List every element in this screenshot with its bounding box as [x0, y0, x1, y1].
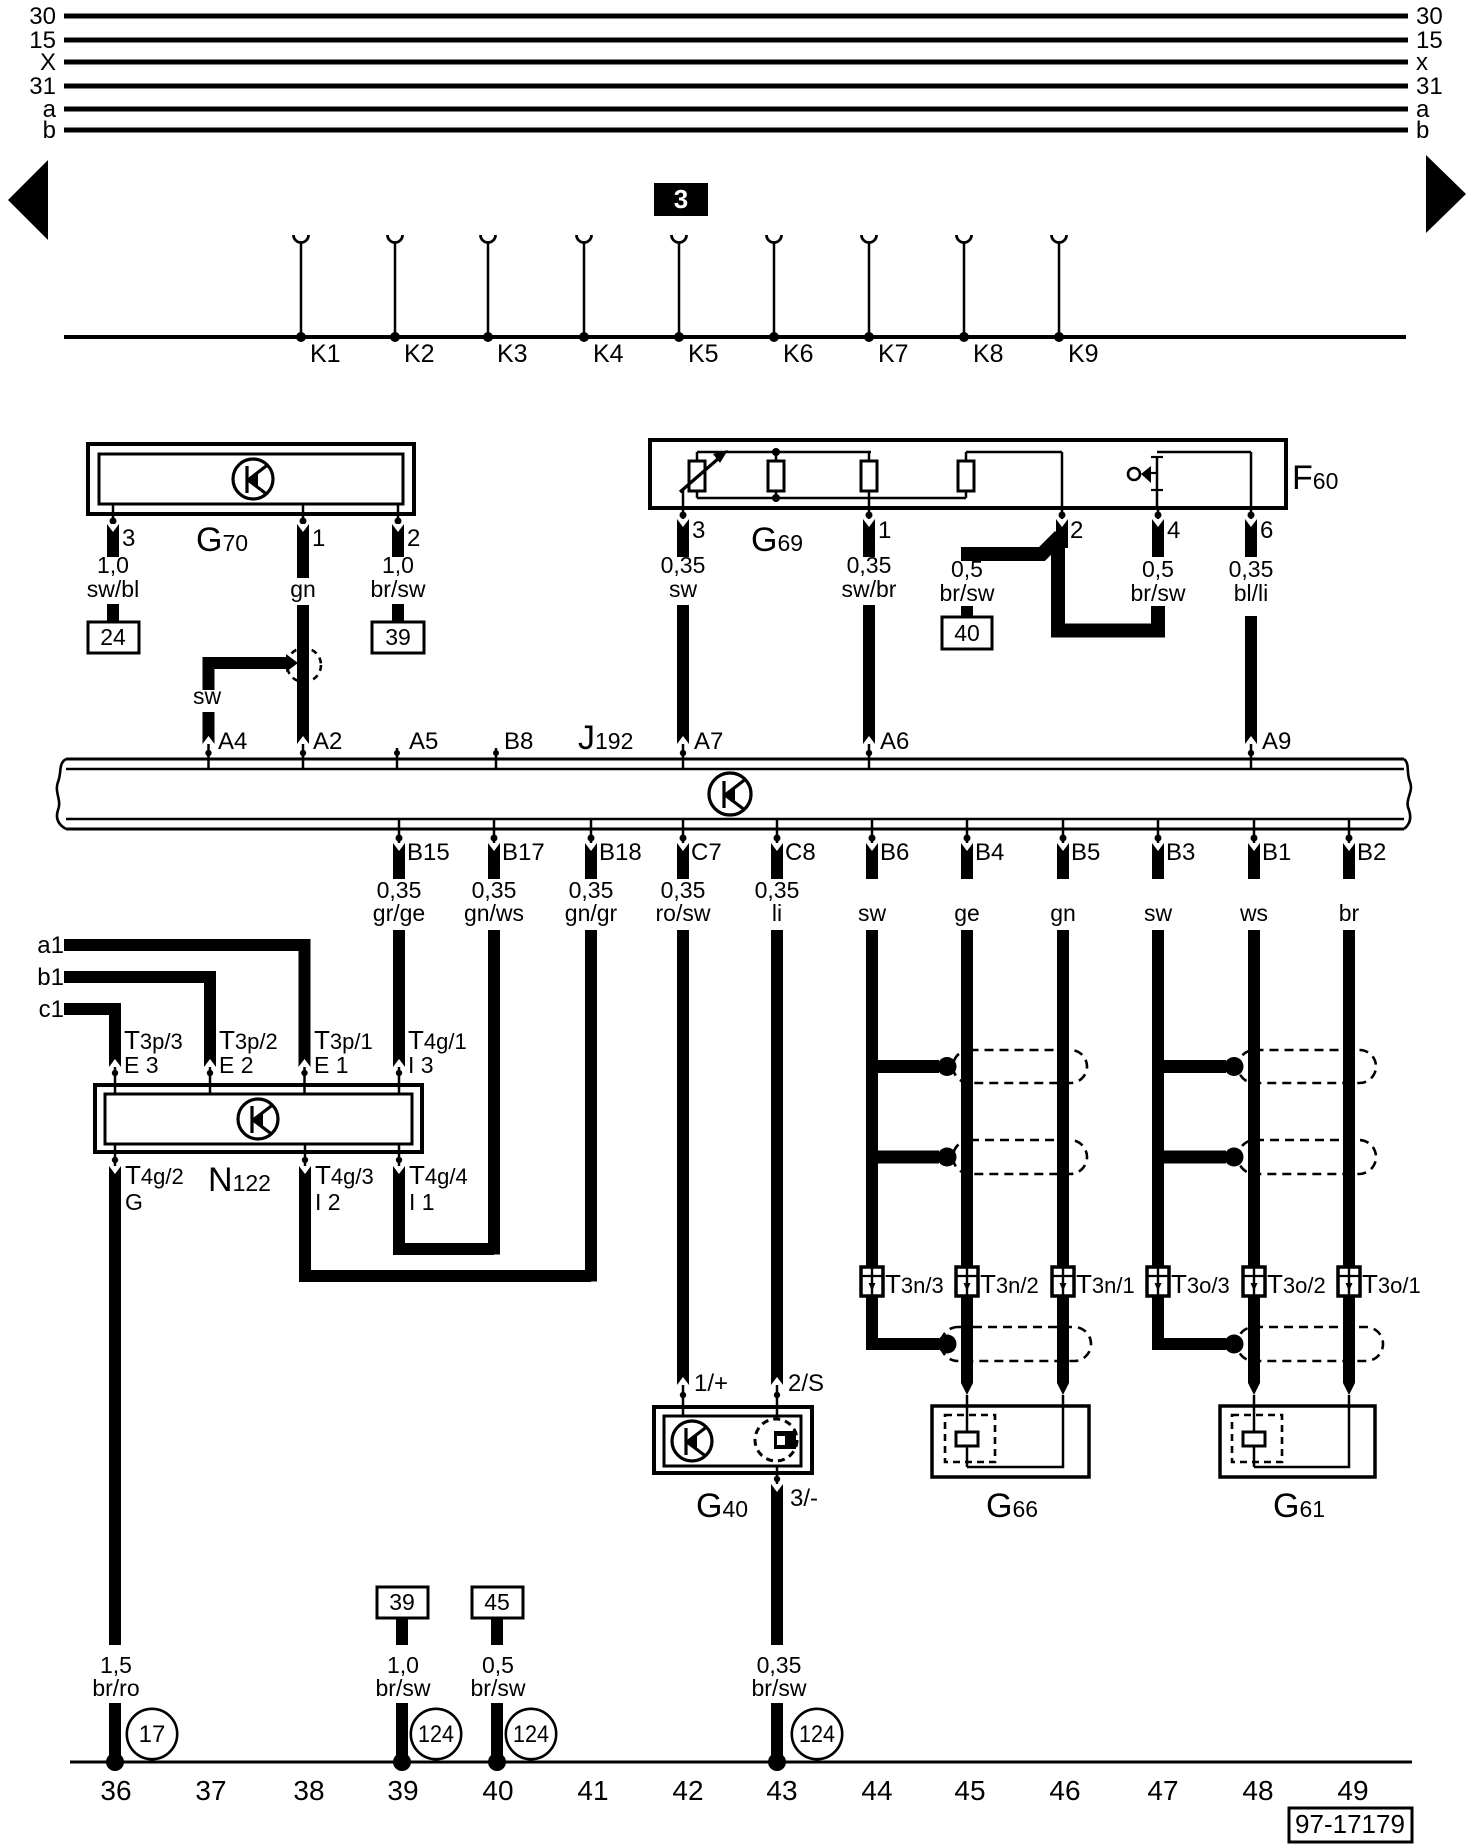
node K4 — [577, 235, 624, 368]
svg-text:24: 24 — [100, 624, 126, 650]
ground symbol 124 at 40 — [506, 1709, 556, 1759]
svg-text:B18: B18 — [599, 839, 642, 866]
svg-text:T3n/3: T3n/3 — [885, 1269, 944, 1299]
wire B4 stub — [961, 843, 973, 879]
wire a1 to N122-E1 — [64, 945, 311, 1067]
svg-text:1,0: 1,0 — [382, 552, 414, 578]
svg-text:T3n/2: T3n/2 — [980, 1269, 1039, 1299]
wire colour 0,35 ro/sw (C7) — [656, 877, 711, 926]
F60 pin 6 — [1248, 508, 1274, 544]
wire c1 to N122-E3 — [64, 1009, 121, 1067]
svg-text:1: 1 — [878, 517, 891, 544]
wire size 1,5 br/ro — [92, 1652, 139, 1701]
F60 pin 4 — [1155, 508, 1181, 544]
wire li C8 to G40-2 — [771, 930, 783, 1385]
bus line a — [43, 96, 1430, 123]
svg-text:sw: sw — [669, 576, 698, 602]
svg-text:K4: K4 — [593, 340, 624, 368]
J192 pin B5 — [1060, 819, 1101, 866]
bus line 30 — [29, 3, 1442, 30]
track number 39 — [387, 1775, 418, 1806]
J192 pin A9 — [1248, 728, 1292, 769]
svg-text:1,0: 1,0 — [97, 552, 129, 578]
control unit J192 bar — [57, 759, 1411, 829]
wire B3 lower to shield — [1158, 1296, 1244, 1354]
svg-text:br/sw: br/sw — [940, 580, 995, 606]
svg-text:3/-: 3/- — [790, 1485, 818, 1512]
svg-text:B1: B1 — [1262, 839, 1291, 866]
J192 pin A7 — [680, 728, 724, 769]
J192 pin B2 — [1346, 819, 1387, 866]
shield pill mid left — [953, 1140, 1087, 1174]
label G61 — [1273, 1487, 1325, 1525]
shield pill mid right — [1238, 1140, 1376, 1174]
svg-text:124: 124 — [799, 1721, 835, 1748]
track number 37 — [195, 1775, 226, 1806]
svg-text:T3n/1: T3n/1 — [1076, 1269, 1135, 1299]
svg-text:6: 6 — [1260, 517, 1273, 544]
wire size 0,35 sw/br — [842, 552, 897, 602]
svg-text:gn: gn — [1050, 900, 1076, 926]
svg-text:ws: ws — [1239, 900, 1268, 926]
svg-text:sw: sw — [1144, 900, 1173, 926]
svg-text:T4g/4: T4g/4 — [409, 1160, 468, 1190]
wire size 0,5 br/sw lower — [471, 1652, 526, 1701]
svg-text:br/sw: br/sw — [1131, 580, 1186, 606]
wire F60-1 stub — [863, 519, 875, 557]
svg-text:38: 38 — [293, 1775, 324, 1806]
svg-text:39: 39 — [385, 624, 411, 650]
label N122 — [208, 1161, 271, 1199]
svg-text:br/sw: br/sw — [371, 576, 426, 602]
svg-text:0,35: 0,35 — [1229, 556, 1274, 582]
wire F60-6 stub — [1245, 519, 1257, 557]
svg-text:I 1: I 1 — [409, 1189, 435, 1215]
svg-text:c1: c1 — [39, 996, 64, 1023]
G70 pin 3 — [110, 505, 136, 552]
node c1 — [39, 996, 64, 1023]
svg-text:B5: B5 — [1071, 839, 1100, 866]
svg-text:2/S: 2/S — [788, 1370, 824, 1397]
svg-text:1/+: 1/+ — [694, 1370, 728, 1397]
G61 sensor element — [1232, 1415, 1282, 1462]
svg-text:sw: sw — [858, 900, 887, 926]
svg-text:a1: a1 — [37, 932, 64, 959]
label G66 — [986, 1487, 1038, 1525]
G40 pin 2/S — [774, 1370, 824, 1416]
svg-text:K8: K8 — [973, 340, 1004, 368]
svg-text:17: 17 — [139, 1721, 166, 1748]
wire gr/ge B15 to N122-I3 — [393, 930, 405, 1067]
G69 internal top rail — [697, 451, 871, 454]
wire colour gn (B5) — [1050, 900, 1076, 926]
connector T3n/1 — [1052, 1267, 1135, 1299]
svg-text:gn: gn — [290, 576, 316, 602]
F60 internal rail to pin6 — [1157, 452, 1251, 508]
N122 pin T3p/3 E3 — [112, 1025, 183, 1093]
bus line X — [40, 49, 1428, 76]
wire colour br (B2) — [1339, 900, 1360, 926]
svg-text:A7: A7 — [694, 728, 723, 755]
svg-text:49: 49 — [1337, 1775, 1368, 1806]
wire B3 stub — [1152, 843, 1164, 879]
N122 pin T4g/1 I3 — [396, 1025, 467, 1093]
svg-text:46: 46 — [1049, 1775, 1080, 1806]
track number 41 — [577, 1775, 608, 1806]
connector T3o/2 — [1243, 1267, 1326, 1299]
wire ge B4 lower — [961, 930, 973, 1395]
J192 pin A2 — [300, 728, 343, 769]
wire B3 upper segment — [1152, 930, 1164, 1267]
component N122 box — [95, 1085, 422, 1152]
svg-text:40: 40 — [482, 1775, 513, 1806]
J192 pin C8 — [774, 819, 816, 866]
svg-text:B6: B6 — [880, 839, 909, 866]
G40 hall element — [755, 1419, 797, 1461]
wire br/sw F60-2 to F60-4 loop — [1058, 540, 1158, 631]
svg-text:45: 45 — [954, 1775, 985, 1806]
wire F60-2 stub — [1056, 519, 1068, 548]
svg-text:30: 30 — [1416, 3, 1443, 30]
track number 44 — [861, 1775, 892, 1806]
shield drain taps B3 — [1153, 1057, 1244, 1167]
svg-text:gn/ws: gn/ws — [464, 900, 524, 926]
wire size 0,35 br/sw bottom — [752, 1652, 807, 1701]
wire colour ge (B4) — [954, 900, 980, 926]
node b1 — [37, 964, 64, 991]
shield pill top right — [1238, 1050, 1376, 1083]
wire br/sw F60-2 branch left — [961, 536, 1060, 554]
svg-text:B15: B15 — [407, 839, 450, 866]
svg-text:b: b — [43, 117, 56, 144]
wire ws B1 lower — [1248, 930, 1260, 1395]
component G66 box — [932, 1406, 1089, 1477]
G66 internal wire — [967, 1395, 1063, 1467]
wire br B2 lower — [1343, 930, 1355, 1395]
wire colour sw (B6) — [858, 900, 887, 926]
G40 symbol K — [672, 1421, 712, 1461]
svg-text:E 3: E 3 — [124, 1052, 159, 1078]
svg-text:A9: A9 — [1262, 728, 1291, 755]
wire gn B5 lower — [1057, 930, 1069, 1395]
connector T3n/2 — [956, 1267, 1039, 1299]
left direction arrow — [8, 160, 48, 240]
svg-text:B4: B4 — [975, 839, 1004, 866]
svg-text:gn/gr: gn/gr — [565, 900, 618, 926]
svg-text:97-17179: 97-17179 — [1295, 1809, 1405, 1839]
wire sw/br F60-1 to J192-A6 — [863, 605, 875, 744]
wire sw to J192-A4 — [203, 712, 215, 744]
G70 pin 2 — [395, 505, 421, 552]
svg-text:K9: K9 — [1068, 340, 1099, 368]
wire gn G70-1 to J192-A2 — [297, 605, 309, 744]
svg-text:39: 39 — [387, 1775, 418, 1806]
connector T3n/3 — [861, 1267, 944, 1299]
ground designation 45 — [472, 1587, 523, 1645]
svg-text:gr/ge: gr/ge — [373, 900, 425, 926]
current track tag 3 — [654, 183, 708, 216]
F60 series resistor — [958, 452, 974, 498]
svg-text:K6: K6 — [783, 340, 814, 368]
svg-text:A4: A4 — [218, 728, 247, 755]
svg-text:0,35: 0,35 — [847, 552, 892, 578]
svg-text:ro/sw: ro/sw — [656, 900, 711, 926]
label F60 — [1292, 459, 1338, 497]
label J192 — [578, 719, 633, 757]
J192 pin B17 — [491, 819, 545, 866]
component G70 box — [88, 444, 414, 514]
bus line b — [43, 117, 1430, 144]
node K9 — [1052, 235, 1099, 368]
G69 internal bottom rail — [697, 497, 966, 500]
wire B5 stub — [1057, 843, 1069, 879]
svg-text:sw/bl: sw/bl — [87, 576, 139, 602]
wire size 0,5 br/sw right — [1131, 556, 1186, 606]
wire sw branch arrow — [203, 654, 298, 672]
label G70 — [196, 521, 248, 559]
svg-text:2: 2 — [407, 525, 420, 552]
wire size 0,5 br/sw left — [940, 556, 995, 606]
ground designation 39 lower — [377, 1587, 428, 1645]
svg-text:T3p/3: T3p/3 — [124, 1025, 183, 1055]
node K3 — [481, 235, 528, 368]
svg-text:K5: K5 — [688, 340, 719, 368]
svg-text:T4g/3: T4g/3 — [315, 1160, 374, 1190]
svg-text:B2: B2 — [1357, 839, 1386, 866]
wire C7 stub — [677, 843, 689, 879]
wire colour 0,35 gn/gr (B18) — [565, 877, 618, 926]
svg-text:124: 124 — [513, 1721, 549, 1748]
svg-text:I 3: I 3 — [408, 1052, 434, 1078]
svg-text:X: X — [40, 49, 56, 76]
G70 generator symbol K — [233, 459, 273, 499]
wire size 1,0 br/sw — [371, 552, 426, 602]
svg-text:4: 4 — [1167, 517, 1180, 544]
track number 42 — [672, 1775, 703, 1806]
shield pill bottom left — [941, 1327, 1091, 1361]
svg-text:E 2: E 2 — [219, 1052, 254, 1078]
svg-text:br/sw: br/sw — [376, 1675, 431, 1701]
wire B6 upper segment — [866, 930, 878, 1267]
svg-text:A5: A5 — [409, 728, 438, 755]
svg-text:T3o/3: T3o/3 — [1171, 1269, 1230, 1299]
wire B15 stub — [393, 843, 405, 879]
node K5 — [672, 235, 719, 368]
J192 pin B1 — [1251, 819, 1292, 866]
svg-text:T3p/2: T3p/2 — [219, 1025, 278, 1055]
J192 pin B3 — [1155, 819, 1196, 866]
N122 pin T3p/1 E1 — [301, 1025, 372, 1093]
diagram number 97-17179 — [1289, 1808, 1412, 1842]
svg-text:K3: K3 — [497, 340, 528, 368]
label G40 — [696, 1487, 748, 1525]
svg-text:43: 43 — [766, 1775, 797, 1806]
svg-text:br/sw: br/sw — [471, 1675, 526, 1701]
wire colour 0,35 gr/ge (B15) — [373, 877, 425, 926]
svg-text:A2: A2 — [313, 728, 342, 755]
svg-text:T3o/1: T3o/1 — [1362, 1269, 1421, 1299]
wire 39 to terminal 39 — [393, 1703, 411, 1771]
svg-text:42: 42 — [672, 1775, 703, 1806]
shield drain taps B6 — [867, 1057, 957, 1167]
svg-text:0,5: 0,5 — [1142, 556, 1174, 582]
wire colour 0,35 gn/ws (B17) — [464, 877, 524, 926]
wire br/ro to terminal 36 — [106, 1703, 124, 1771]
J192 pin C7 — [680, 819, 722, 866]
wire N122-I1 to B17 — [393, 1166, 494, 1249]
wire br/ro N122-G upper — [109, 1166, 121, 1645]
svg-text:41: 41 — [577, 1775, 608, 1806]
svg-text:sw: sw — [193, 683, 222, 709]
G69 resistor right — [861, 452, 877, 508]
node K8 — [957, 235, 1004, 368]
svg-text:br/sw: br/sw — [752, 1675, 807, 1701]
svg-text:B17: B17 — [502, 839, 545, 866]
G66 pin wire from B4 — [966, 1395, 969, 1432]
wire gn G70-1 upper — [297, 524, 309, 578]
bottom track rail — [70, 1761, 1412, 1764]
svg-text:B8: B8 — [504, 728, 533, 755]
J192 pin B18 — [588, 819, 642, 866]
track number 48 — [1242, 1775, 1273, 1806]
svg-text:36: 36 — [100, 1775, 131, 1806]
svg-text:b1: b1 — [37, 964, 64, 991]
wire N122-I2 to B18 — [299, 1166, 591, 1276]
J192 pin A5 — [394, 728, 438, 769]
svg-text:39: 39 — [389, 1589, 415, 1615]
bus line 15 — [29, 27, 1442, 54]
F60 switch — [1128, 457, 1163, 508]
N122 pin T3p/2 E2 — [207, 1025, 278, 1093]
wire ro/sw C7 to G40-1 — [677, 930, 689, 1385]
ground symbol 124 at 39 — [411, 1709, 461, 1759]
shield pill top left — [953, 1050, 1087, 1083]
svg-text:x: x — [1416, 49, 1428, 76]
G40 pin 1/+ — [680, 1370, 728, 1416]
wire G40-3 to terminal 43 — [768, 1703, 786, 1771]
svg-text:44: 44 — [861, 1775, 892, 1806]
svg-text:K2: K2 — [404, 340, 435, 368]
F60 pin 3 — [680, 508, 706, 544]
svg-text:30: 30 — [29, 3, 56, 30]
G61 internal wire — [1254, 1395, 1349, 1467]
ground symbol 17 — [127, 1709, 177, 1759]
svg-text:T4g/1: T4g/1 — [408, 1025, 467, 1055]
svg-text:45: 45 — [484, 1589, 510, 1615]
svg-text:T3p/1: T3p/1 — [314, 1025, 373, 1055]
svg-text:C7: C7 — [691, 839, 722, 866]
svg-text:0,5: 0,5 — [951, 556, 983, 582]
connector T3o/1 — [1338, 1267, 1421, 1299]
wire sw vertical upper — [203, 657, 215, 690]
wire bl/li F60-6 to J192-A9 — [1245, 616, 1257, 744]
G69 resistor mid — [768, 448, 784, 502]
track number 40 — [482, 1775, 513, 1806]
track number 38 — [293, 1775, 324, 1806]
svg-text:37: 37 — [195, 1775, 226, 1806]
node a1 — [37, 932, 64, 959]
shield pill bottom right — [1237, 1327, 1383, 1361]
label G69 — [751, 521, 803, 559]
wire B6 stub — [866, 843, 878, 879]
node K7 — [862, 235, 909, 368]
svg-text:47: 47 — [1147, 1775, 1178, 1806]
wire size 0,35 bl/li — [1229, 556, 1274, 606]
F60 pin 2 — [1059, 508, 1084, 544]
wire size 0,35 sw — [661, 552, 706, 602]
component G40 box — [654, 1407, 812, 1473]
junction circle on gn wire — [287, 648, 321, 682]
ground designation 24 — [88, 604, 139, 653]
J192 pin B8 — [493, 728, 533, 769]
J192 symbol K — [709, 773, 751, 815]
svg-text:124: 124 — [418, 1721, 454, 1748]
J192 pin B15 — [396, 819, 450, 866]
J192 pin A6 — [866, 728, 910, 769]
svg-text:K1: K1 — [310, 340, 341, 368]
svg-text:I 2: I 2 — [315, 1189, 341, 1215]
wire colour ws (B1) — [1239, 900, 1268, 926]
node K6 — [767, 235, 814, 368]
svg-text:b: b — [1416, 117, 1429, 144]
svg-text:T3o/2: T3o/2 — [1267, 1269, 1326, 1299]
G40 pin 3/- — [774, 1466, 818, 1512]
wire b1 to N122-E2 — [64, 977, 216, 1067]
F60 internal rail to pin2 — [966, 452, 1062, 508]
wire G70-2 stub — [392, 524, 404, 557]
wire gn/gr B18 down — [585, 930, 597, 1282]
bus line 31 — [29, 73, 1442, 100]
wire C8 stub — [771, 843, 783, 879]
svg-text:C8: C8 — [785, 839, 816, 866]
svg-text:K7: K7 — [878, 340, 909, 368]
component F60/G69 box — [650, 440, 1286, 508]
wire B17 stub — [488, 843, 500, 879]
terminal rail K — [64, 335, 1406, 339]
F60 pin 1 — [866, 508, 892, 544]
component G61 box — [1220, 1406, 1375, 1477]
J192 pin B4 — [964, 819, 1005, 866]
wire colour 0,35 li (C8) — [755, 877, 800, 926]
J192 pin A4 — [205, 728, 247, 769]
svg-text:li: li — [772, 900, 782, 926]
track number 45 — [954, 1775, 985, 1806]
wire sw F60-3 to J192-A7 — [677, 605, 689, 744]
svg-text:0,35: 0,35 — [661, 552, 706, 578]
svg-text:sw/br: sw/br — [842, 576, 897, 602]
ground symbol 124 at 43 — [792, 1709, 842, 1759]
svg-text:3: 3 — [674, 184, 688, 214]
wire br/sw G40-3 upper — [771, 1484, 783, 1645]
N122 pin T4g/2 G — [112, 1144, 184, 1215]
track number 46 — [1049, 1775, 1080, 1806]
ground designation 39 — [372, 604, 424, 653]
wire F60-3 stub — [677, 519, 689, 557]
right direction arrow — [1426, 155, 1466, 233]
track number 43 — [766, 1775, 797, 1806]
svg-text:B3: B3 — [1166, 839, 1195, 866]
svg-text:ge: ge — [954, 900, 980, 926]
wire 45 to terminal 40 — [488, 1703, 506, 1771]
wire B2 stub — [1343, 843, 1355, 879]
svg-text:br/ro: br/ro — [92, 1675, 139, 1701]
svg-text:3: 3 — [122, 525, 135, 552]
G69 potentiometer — [680, 450, 728, 508]
wire label sw — [193, 683, 222, 709]
svg-text:bl/li: bl/li — [1234, 580, 1269, 606]
N122 symbol K — [238, 1099, 278, 1139]
wire gn/ws B17 down — [488, 930, 500, 1255]
